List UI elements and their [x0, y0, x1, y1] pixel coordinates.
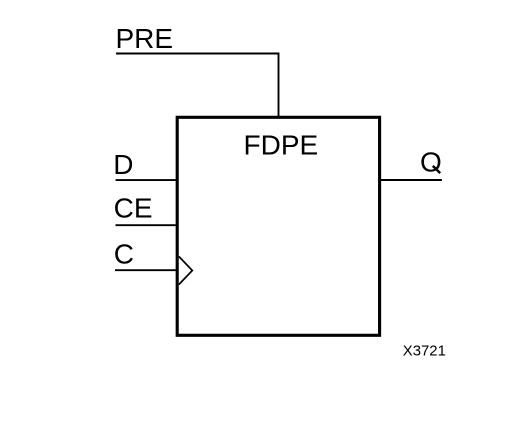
svg-text:CE: CE	[114, 192, 153, 223]
clock input chevron on C pin	[179, 257, 192, 285]
wire D input	[116, 179, 178, 181]
flip-flop U1 body (FDPE symbol outline)	[177, 117, 379, 335]
wire CE input	[116, 224, 179, 226]
svg-text:FDPE: FDPE	[244, 129, 319, 160]
svg-text:X3721: X3721	[403, 344, 446, 360]
wire Q output	[380, 179, 442, 181]
svg-text:D: D	[113, 149, 133, 180]
wire C clock input	[115, 269, 178, 271]
pin label Q (tail stroke)	[433, 166, 440, 173]
wire PRE (horizontal then down into top of symbol)	[116, 54, 279, 118]
svg-text:PRE: PRE	[116, 23, 174, 54]
svg-text:C: C	[114, 238, 134, 269]
